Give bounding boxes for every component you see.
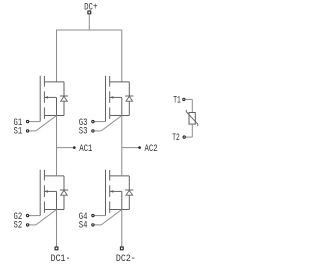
wire DC1- drop: [56, 210, 58, 247]
label S4: [79, 221, 88, 232]
svg-text:AC1: AC1: [79, 144, 92, 155]
label AC2: [145, 144, 158, 155]
terminal S3: [92, 130, 94, 132]
wire gate pin G2: [29, 215, 40, 217]
terminal DC+: [88, 11, 91, 14]
terminal DC2-: [120, 247, 123, 250]
wire gate pin G4: [94, 215, 105, 217]
terminal DC1-: [55, 247, 58, 250]
wire left leg mid: [56, 116, 58, 176]
svg-text:S2: S2: [14, 221, 23, 232]
body diode of Q4: [125, 176, 133, 210]
wire gate pin G3: [94, 121, 105, 123]
svg-text:T1: T1: [173, 96, 181, 107]
svg-text:T2: T2: [172, 133, 180, 144]
wire T1 lead: [185, 99, 192, 112]
label T1: [173, 96, 181, 107]
label DC2-: [116, 254, 136, 265]
label AC1: [79, 144, 92, 155]
svg-text:AC2: AC2: [145, 144, 158, 155]
svg-text:S4: S4: [79, 221, 88, 232]
body diode of Q3: [125, 82, 133, 116]
label G1: [14, 118, 23, 129]
terminal G1: [26, 120, 28, 122]
terminal S2: [26, 224, 28, 226]
label G3: [79, 118, 88, 129]
terminal G2: [26, 214, 28, 216]
label S3: [79, 127, 88, 138]
label DC1-: [51, 254, 71, 265]
transistor Q3: [106, 76, 130, 122]
label S1: [14, 127, 23, 138]
wire DC2- drop: [121, 210, 123, 247]
wire DC+ lead: [88, 14, 90, 30]
wire source pin S2: [29, 210, 57, 225]
terminal T2: [183, 136, 185, 138]
svg-text:DC2-: DC2-: [116, 254, 136, 265]
node AC2: [138, 146, 141, 149]
wire right leg mid: [121, 116, 123, 176]
wire source pin S1: [29, 116, 57, 131]
label G4: [79, 212, 88, 223]
body diode of Q1: [60, 82, 68, 116]
wire gate pin G1: [29, 121, 40, 123]
body diode of Q2: [60, 176, 68, 210]
wire top bus: [57, 29, 122, 31]
wire AC1 stub: [57, 147, 74, 149]
wire right drain drop: [121, 30, 123, 82]
terminal G3: [92, 120, 94, 122]
svg-text:S1: S1: [14, 127, 23, 138]
label G2: [14, 212, 23, 223]
transistor Q4: [106, 170, 130, 216]
label S2: [14, 221, 23, 232]
terminal S1: [26, 130, 28, 132]
wire left drain drop: [56, 30, 58, 82]
wire source pin S3: [94, 116, 122, 131]
svg-text:S3: S3: [79, 127, 88, 138]
thermistor RT1: [186, 110, 198, 127]
node AC1: [73, 146, 76, 149]
svg-text:DC1-: DC1-: [51, 254, 71, 265]
net label DC+: [84, 3, 97, 14]
wire source pin S4: [94, 210, 122, 225]
terminal S4: [92, 224, 94, 226]
wire AC2 stub: [122, 147, 139, 149]
wire T2 lead: [186, 124, 193, 137]
terminal G4: [92, 214, 94, 216]
transistor Q2: [40, 170, 64, 216]
transistor Q1: [40, 76, 64, 122]
label T2: [172, 133, 180, 144]
terminal T1: [183, 98, 185, 100]
